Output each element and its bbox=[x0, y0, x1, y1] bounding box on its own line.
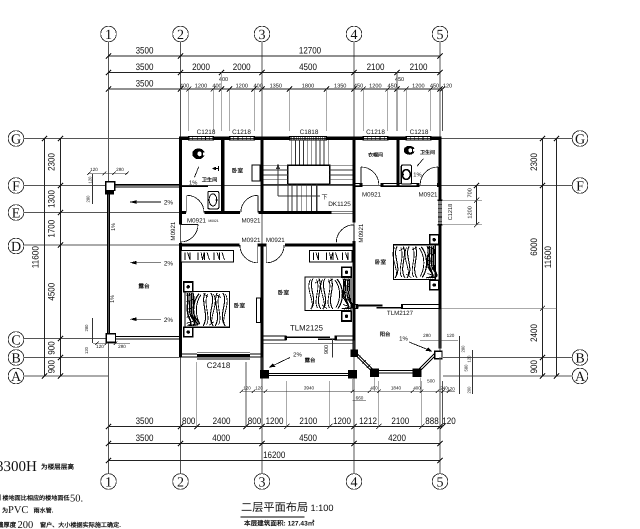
svg-text:2100: 2100 bbox=[391, 415, 409, 426]
slope arrow 2% balcony2 bbox=[271, 358, 290, 367]
svg-text:M0921: M0921 bbox=[419, 192, 438, 199]
svg-text:2%: 2% bbox=[164, 260, 174, 267]
bay extension verticals bbox=[261, 379, 263, 391]
svg-text:TLM2125: TLM2125 bbox=[290, 324, 324, 333]
svg-text:120: 120 bbox=[255, 386, 263, 391]
svg-text:1%: 1% bbox=[399, 335, 408, 342]
svg-text:400: 400 bbox=[370, 386, 378, 391]
svg-text:M0921: M0921 bbox=[362, 192, 381, 199]
axis bubble left B bbox=[8, 350, 24, 366]
svg-text:2: 2 bbox=[177, 28, 184, 43]
door M0921 bath1 bbox=[186, 195, 188, 212]
right dim total line 11600 bbox=[556, 139, 558, 377]
svg-text:900: 900 bbox=[46, 341, 57, 354]
grid axis row line D bbox=[24, 244, 181, 246]
svg-text:4: 4 bbox=[351, 475, 358, 490]
grid axis row line A bbox=[24, 375, 109, 377]
svg-text:F: F bbox=[12, 179, 20, 194]
svg-text:1200: 1200 bbox=[412, 84, 424, 90]
svg-text:B: B bbox=[575, 351, 584, 366]
svg-text:888: 888 bbox=[425, 415, 438, 426]
wall F-row right section (cloak/bath2 south) bbox=[352, 182, 359, 184]
axis bubble top 2 bbox=[173, 26, 189, 42]
nightstand bedroom3 top bbox=[430, 235, 439, 245]
svg-text:120: 120 bbox=[442, 415, 455, 426]
wardrobe bedroom1 bbox=[181, 251, 233, 263]
washbasin bath2 bbox=[401, 165, 411, 184]
svg-text:280: 280 bbox=[118, 344, 126, 349]
axis bubble right A bbox=[572, 368, 588, 384]
svg-text:间: 间 bbox=[0, 494, 1, 502]
svg-text:M0921: M0921 bbox=[170, 221, 177, 240]
svg-text:露台: 露台 bbox=[305, 357, 316, 364]
wall bath1 east divider bbox=[221, 137, 224, 214]
toilet bath1 bbox=[192, 148, 204, 159]
svg-text:4000: 4000 bbox=[212, 432, 230, 443]
axis bubble left E bbox=[8, 205, 24, 221]
svg-text:C1218: C1218 bbox=[232, 129, 251, 136]
svg-text:2000: 2000 bbox=[233, 61, 251, 72]
grid axis row line B bbox=[24, 357, 179, 359]
stair direction line with arrow bbox=[277, 167, 279, 197]
svg-text:500: 500 bbox=[427, 379, 435, 384]
svg-text:3500: 3500 bbox=[136, 432, 154, 443]
svg-text:2300: 2300 bbox=[46, 153, 57, 171]
bottom dim line rowB bbox=[109, 443, 441, 445]
terrace north parapet F-row bbox=[114, 184, 179, 186]
axis bubble left D bbox=[8, 238, 24, 254]
svg-text:E: E bbox=[12, 206, 21, 221]
svg-text:800: 800 bbox=[248, 415, 261, 426]
slope arrow 2% corridor bbox=[130, 201, 161, 203]
opening DK1125 sill lines bbox=[332, 210, 353, 212]
axis bubble top 5 bbox=[432, 26, 448, 42]
axis bubble bottom 4 bbox=[346, 474, 362, 490]
svg-text:280: 280 bbox=[423, 333, 431, 338]
svg-text:二层平面布局: 二层平面布局 bbox=[241, 501, 308, 514]
svg-text:C1818: C1818 bbox=[300, 129, 319, 136]
svg-text:1%: 1% bbox=[111, 223, 117, 231]
balcony2 south rail A-row bbox=[262, 372, 352, 374]
right extension line at y=308 bbox=[442, 307, 557, 309]
wall E-row (bath1/bedroomtop/stair south) bbox=[179, 211, 186, 214]
balcony3 bay chamfer west bbox=[354, 354, 374, 374]
toilet bath2 bbox=[404, 146, 415, 155]
svg-text:280: 280 bbox=[461, 345, 466, 353]
svg-text:580: 580 bbox=[464, 364, 469, 372]
svg-text:1200: 1200 bbox=[333, 415, 351, 426]
balcony2 west parapet col3 bbox=[260, 340, 262, 373]
nightstand bedroom1 bottom bbox=[184, 327, 193, 337]
svg-text:1700: 1700 bbox=[46, 220, 57, 238]
balcony3 bay south rail bbox=[375, 369, 418, 371]
svg-text:1200: 1200 bbox=[266, 415, 284, 426]
terrace south parapet C-row bbox=[115, 336, 179, 338]
svg-text:6000: 6000 bbox=[528, 238, 539, 256]
sliding door TLM2127 leaves bbox=[358, 305, 383, 307]
svg-text:A: A bbox=[11, 370, 22, 385]
svg-text:G: G bbox=[575, 132, 585, 147]
balcony3 east parapet col5 below TLM2127 bbox=[438, 308, 440, 348]
svg-text:1350: 1350 bbox=[334, 84, 346, 90]
svg-text:120: 120 bbox=[88, 176, 93, 184]
stair landing bbox=[288, 165, 330, 184]
balcony2 floor edge line bbox=[262, 343, 352, 345]
axis bubble right B bbox=[572, 350, 588, 366]
grid axis row line E bbox=[24, 212, 181, 214]
wall cloakroom/bath2 divider bbox=[396, 137, 399, 187]
axis bubble right G bbox=[572, 131, 588, 147]
floor drain arrow bath1 bbox=[212, 167, 216, 171]
nightstand bedroom2 bottom bbox=[342, 311, 351, 321]
top dim line row1 bbox=[109, 55, 441, 57]
bay bottom mini dims bbox=[242, 390, 456, 392]
svg-text:4500: 4500 bbox=[46, 283, 57, 301]
svg-text:120: 120 bbox=[443, 84, 452, 90]
svg-text:280: 280 bbox=[84, 324, 89, 332]
balcony3 bay post west bbox=[370, 368, 379, 377]
nightstand bedroom3 bottom bbox=[430, 280, 439, 290]
door M0921 bedroom-top bbox=[257, 195, 259, 212]
svg-text:2100: 2100 bbox=[410, 61, 428, 72]
svg-text:卧室: 卧室 bbox=[278, 290, 290, 297]
grid axis row line C bbox=[24, 338, 106, 340]
svg-text:2: 2 bbox=[177, 475, 184, 490]
svg-text:5: 5 bbox=[437, 475, 444, 490]
svg-text:衣帽间: 衣帽间 bbox=[368, 152, 383, 159]
svg-text:200: 200 bbox=[467, 386, 472, 394]
wardrobe bedroom2 bbox=[310, 251, 353, 263]
window C1218 east wall bbox=[437, 200, 439, 225]
svg-text:450: 450 bbox=[395, 77, 404, 83]
door M0921 bedroom3 col4 bbox=[353, 225, 355, 243]
door M0921 bedroom2 D-row bbox=[265, 245, 267, 263]
stair west winder treads bbox=[264, 164, 288, 166]
svg-text:F: F bbox=[576, 179, 584, 194]
svg-text:3500: 3500 bbox=[136, 45, 154, 56]
svg-text:400: 400 bbox=[219, 77, 228, 83]
bottom dim extension lines bbox=[108, 381, 110, 427]
right dim segment line bbox=[542, 139, 544, 377]
wall column-5 east vertical with window C1218 bbox=[438, 137, 441, 201]
axis bubble left C bbox=[8, 332, 24, 348]
svg-text:2400: 2400 bbox=[213, 415, 231, 426]
svg-text:450: 450 bbox=[354, 84, 363, 90]
svg-text:1%: 1% bbox=[110, 295, 116, 303]
svg-text:4500: 4500 bbox=[299, 432, 317, 443]
svg-text:400: 400 bbox=[413, 386, 421, 391]
wall column-2 axis vertical bbox=[179, 137, 182, 225]
svg-text:400: 400 bbox=[212, 84, 221, 90]
window C1218 #4 bbox=[406, 136, 431, 138]
svg-text:本层建筑面积: 127.43㎡: 本层建筑面积: 127.43㎡ bbox=[244, 520, 315, 528]
grid axis column lines 1-5 bbox=[108, 42, 110, 474]
flue shaft bedroom2 bbox=[256, 298, 260, 323]
window C1218 #1 bbox=[189, 136, 214, 138]
axis bubble top 1 bbox=[101, 26, 117, 42]
svg-text:D: D bbox=[11, 240, 21, 255]
top dim extension lines bbox=[108, 89, 110, 131]
svg-text:3500: 3500 bbox=[136, 415, 154, 426]
svg-text:4: 4 bbox=[351, 28, 358, 43]
wall D-row (corridor south) bbox=[179, 243, 240, 246]
svg-text:900: 900 bbox=[46, 360, 57, 373]
svg-text:280: 280 bbox=[86, 195, 91, 203]
balcony3 corner column at B bbox=[435, 351, 442, 358]
svg-text:阳台: 阳台 bbox=[380, 331, 391, 338]
wall bedroom3 south y306.5 with sliding door TLM2127 bbox=[352, 303, 358, 305]
terrace column at C bbox=[106, 334, 115, 342]
door M0921 bath2 bbox=[437, 167, 439, 185]
window C1218 #3 bbox=[363, 136, 388, 138]
slope arrow 1% balcony3 bbox=[409, 342, 430, 351]
svg-text:为楼层层高: 为楼层层高 bbox=[41, 463, 74, 471]
svg-text:下: 下 bbox=[321, 194, 327, 201]
top dim line row3 bbox=[109, 88, 443, 90]
svg-text:16200: 16200 bbox=[263, 449, 285, 460]
svg-text:2%: 2% bbox=[293, 352, 302, 359]
window C2418 dark band bbox=[197, 354, 250, 357]
svg-text:M0921: M0921 bbox=[266, 237, 285, 244]
balcony3 post at col4 chamfer bbox=[351, 350, 358, 357]
svg-text:120: 120 bbox=[447, 333, 455, 338]
grid axis row line G bbox=[24, 138, 572, 140]
svg-text:G: G bbox=[11, 132, 21, 147]
svg-text:C1218: C1218 bbox=[366, 129, 385, 136]
svg-text:TLM2127: TLM2127 bbox=[387, 310, 414, 317]
svg-text:1%: 1% bbox=[189, 180, 197, 187]
axis bubble top 4 bbox=[346, 26, 362, 42]
terrace west parapet col1 bbox=[106, 195, 108, 334]
svg-text:1212: 1212 bbox=[359, 415, 377, 426]
svg-text:M0921: M0921 bbox=[358, 223, 365, 242]
svg-text:B: B bbox=[11, 351, 20, 366]
svg-text:900: 900 bbox=[528, 360, 539, 373]
svg-text:3500: 3500 bbox=[136, 61, 154, 72]
svg-text:C1218: C1218 bbox=[410, 129, 429, 136]
svg-text:120: 120 bbox=[84, 346, 89, 354]
svg-text:11600: 11600 bbox=[30, 246, 41, 268]
svg-text:M0921: M0921 bbox=[187, 217, 206, 224]
svg-text:800: 800 bbox=[182, 415, 195, 426]
svg-text:1200: 1200 bbox=[195, 84, 207, 90]
svg-text:卧室: 卧室 bbox=[234, 303, 246, 310]
wall column-3 stair west bbox=[260, 137, 263, 214]
svg-text:11600: 11600 bbox=[542, 246, 553, 268]
flue shaft bedroom-top bbox=[252, 165, 260, 181]
axis bubble left F bbox=[8, 178, 24, 194]
svg-text:1200: 1200 bbox=[369, 84, 381, 90]
axis bubble left A bbox=[8, 368, 24, 384]
washbasin bath1 bbox=[208, 192, 219, 209]
svg-text:C1218: C1218 bbox=[197, 129, 216, 136]
nightstand bedroom2 top bbox=[342, 267, 351, 277]
svg-text:4200: 4200 bbox=[388, 432, 406, 443]
svg-text:卫生间: 卫生间 bbox=[202, 176, 218, 183]
svg-text:1200: 1200 bbox=[236, 84, 248, 90]
svg-text:2%: 2% bbox=[164, 317, 174, 324]
wall C-row bedroom2 south with sliding door TLM2125 bbox=[260, 335, 286, 337]
bed bedroom2 bbox=[305, 277, 351, 311]
svg-text:120: 120 bbox=[243, 386, 251, 391]
bed bedroom1 bbox=[185, 292, 230, 328]
svg-text:M0921: M0921 bbox=[208, 219, 218, 223]
left dim segment line bbox=[60, 139, 62, 377]
svg-text:2100: 2100 bbox=[299, 415, 317, 426]
svg-text:660: 660 bbox=[356, 395, 364, 400]
axis bubble bottom 3 bbox=[254, 474, 270, 490]
slope arrow 2% terrace lower bbox=[130, 318, 161, 320]
svg-text:A: A bbox=[575, 370, 586, 385]
svg-text:楼地面比相应的楼地面低: 楼地面比相应的楼地面低 bbox=[3, 494, 71, 502]
slope 1% bath1 bbox=[195, 167, 199, 178]
axis bubble bottom 2 bbox=[173, 474, 189, 490]
top dim line row2 bbox=[109, 72, 441, 74]
svg-text:卧室: 卧室 bbox=[232, 168, 244, 175]
svg-text:2400: 2400 bbox=[528, 324, 539, 342]
wall B-row bedroom1 south with window C2418 bbox=[179, 353, 197, 355]
grid axis row line F bbox=[24, 185, 572, 187]
svg-text:C: C bbox=[11, 333, 20, 348]
stair upper flight treads bbox=[290, 140, 292, 165]
svg-text:1350: 1350 bbox=[270, 84, 282, 90]
svg-text:PVC: PVC bbox=[8, 505, 28, 516]
sliding door TLM2125 leaves bbox=[287, 336, 331, 338]
svg-text:1840: 1840 bbox=[391, 386, 402, 391]
axis bubble top 3 bbox=[254, 26, 270, 42]
svg-text:3: 3 bbox=[259, 28, 266, 43]
svg-text:700: 700 bbox=[468, 188, 474, 197]
svg-text:400: 400 bbox=[180, 84, 189, 90]
svg-text:50.: 50. bbox=[70, 494, 83, 505]
door M0921 bedroom1 D-row bbox=[257, 245, 259, 263]
svg-text:1: 1 bbox=[105, 28, 112, 43]
svg-text:墙厚度: 墙厚度 bbox=[0, 521, 17, 529]
svg-text:1:100: 1:100 bbox=[311, 503, 334, 513]
svg-text:雨水管.: 雨水管. bbox=[34, 507, 54, 515]
stair east winder treads bbox=[330, 164, 353, 166]
partition in bath1 at F bbox=[181, 185, 208, 187]
balcony3 bay chamfer east bbox=[418, 353, 438, 373]
svg-text:1200: 1200 bbox=[468, 206, 474, 218]
svg-text:450: 450 bbox=[388, 84, 397, 90]
axis bubble bottom 5 bbox=[432, 474, 448, 490]
wall column-4 vertical bbox=[352, 137, 355, 223]
bottom dim line rowC total 16200 bbox=[109, 460, 441, 462]
svg-text:露台: 露台 bbox=[138, 283, 150, 290]
svg-text:2100: 2100 bbox=[367, 61, 385, 72]
slope 1% bath2 bbox=[417, 159, 424, 167]
stair lower flight treads bbox=[291, 184, 293, 211]
svg-text:窗户、大小楼据实际施工确定.: 窗户、大小楼据实际施工确定. bbox=[40, 521, 121, 529]
axis bubble bottom 1 bbox=[101, 474, 117, 490]
door M0921 cloakroom bbox=[360, 167, 362, 185]
svg-text:M0921: M0921 bbox=[242, 217, 261, 224]
svg-text:C1218: C1218 bbox=[448, 204, 454, 220]
nightstand bedroom1 top bbox=[184, 282, 193, 292]
svg-text:3500: 3500 bbox=[136, 78, 154, 89]
window C1218 #2 bbox=[230, 136, 255, 138]
svg-text:1: 1 bbox=[105, 475, 112, 490]
bed bedroom3 bbox=[394, 245, 436, 280]
svg-text:120: 120 bbox=[90, 167, 98, 172]
F-row door jamb blocks bbox=[360, 183, 363, 187]
svg-text:1800: 1800 bbox=[302, 84, 314, 90]
svg-text:1%: 1% bbox=[413, 171, 421, 178]
svg-text:1300: 1300 bbox=[46, 190, 57, 208]
svg-text:4500: 4500 bbox=[299, 61, 317, 72]
svg-text:卫生间: 卫生间 bbox=[420, 149, 435, 156]
svg-text:120: 120 bbox=[447, 386, 455, 391]
svg-text:2000: 2000 bbox=[192, 61, 210, 72]
right mini dim 700/1200 window C1218 bbox=[476, 186, 478, 225]
svg-text:280: 280 bbox=[116, 167, 124, 172]
svg-text:DK1125: DK1125 bbox=[328, 201, 351, 208]
svg-text:120: 120 bbox=[96, 344, 104, 349]
svg-text:240: 240 bbox=[440, 386, 448, 391]
svg-text:3: 3 bbox=[259, 475, 266, 490]
svg-text:200: 200 bbox=[18, 520, 34, 529]
balcony3 bay post east bbox=[413, 368, 422, 377]
svg-text:12700: 12700 bbox=[299, 45, 321, 56]
svg-text:3940: 3940 bbox=[304, 386, 315, 391]
window C1818 bbox=[290, 136, 327, 138]
door M0921 terrace col2 bbox=[181, 224, 199, 226]
axis bubble right F bbox=[572, 178, 588, 194]
left dim total line 11600 bbox=[44, 139, 46, 377]
terrace column at F bbox=[106, 182, 115, 191]
svg-text:450: 450 bbox=[430, 84, 439, 90]
svg-text:卧室: 卧室 bbox=[375, 259, 387, 266]
svg-text:M0921: M0921 bbox=[242, 237, 261, 244]
slope arrow 2% terrace upper bbox=[130, 262, 161, 264]
svg-text:2300: 2300 bbox=[528, 153, 539, 171]
axis bubble left G bbox=[8, 131, 24, 147]
bottom dim line rowA bbox=[109, 426, 443, 428]
chamfer hatch strokes bbox=[358, 356, 362, 360]
svg-text:3300H: 3300H bbox=[0, 459, 37, 475]
svg-text:400: 400 bbox=[254, 84, 263, 90]
svg-text:2%: 2% bbox=[164, 200, 174, 207]
svg-text:120: 120 bbox=[467, 355, 472, 363]
wall column-3 bedroom divider bbox=[260, 243, 263, 357]
balcony2 rail post east bbox=[348, 370, 357, 379]
balcony2 rail post west bbox=[260, 370, 269, 379]
wall G-row north with windows C1218 C1218 C1818 C1218 C1218 bbox=[179, 137, 189, 140]
svg-text:900: 900 bbox=[324, 345, 330, 354]
balcony3 west parapet col4 below C bbox=[352, 340, 354, 353]
svg-text:5: 5 bbox=[437, 28, 444, 43]
svg-text:C2418: C2418 bbox=[207, 361, 231, 370]
